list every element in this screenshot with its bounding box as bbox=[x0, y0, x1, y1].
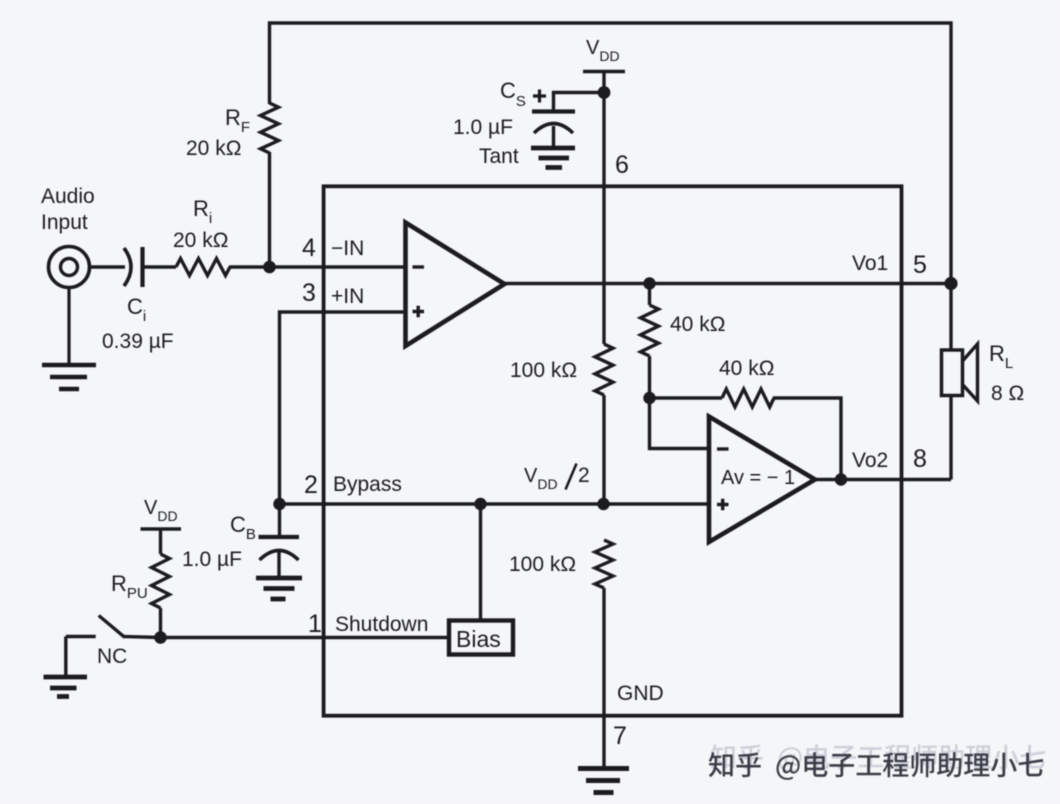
wire RF lower lead bbox=[268, 152, 271, 267]
svg-text:40 kΩ: 40 kΩ bbox=[719, 357, 774, 380]
speaker RL bbox=[942, 284, 978, 480]
ground (NC switch) bbox=[44, 677, 88, 697]
svg-text:100 kΩ: 100 kΩ bbox=[509, 553, 576, 576]
node Vo2 junction bbox=[835, 473, 847, 485]
svg-text:100 kΩ: 100 kΩ bbox=[510, 359, 577, 382]
power VDD symbol (RPU) bbox=[141, 529, 182, 554]
label Audio Input bbox=[41, 185, 95, 234]
svg-text:Tant: Tant bbox=[479, 145, 519, 168]
svg-text:5: 5 bbox=[913, 251, 927, 279]
op-amp A2 minus bbox=[717, 447, 729, 450]
wire top feedback run from RF to Vo1 node bbox=[270, 23, 952, 283]
wire Ri to -IN node bbox=[229, 265, 270, 268]
Bias box bbox=[449, 621, 513, 655]
wire RPU to shutdown node bbox=[159, 608, 162, 638]
wire GND rail down bbox=[602, 588, 605, 768]
svg-text:2: 2 bbox=[578, 464, 590, 487]
ground (GND pin 7) bbox=[578, 769, 629, 793]
wire VDD/2 rail bypass run bbox=[280, 502, 710, 505]
svg-text:8 Ω: 8 Ω bbox=[991, 382, 1024, 405]
resistor RPU bbox=[152, 554, 170, 608]
svg-text:Vo1: Vo1 bbox=[852, 252, 888, 275]
watermark zhihu dark layer bbox=[709, 752, 1043, 780]
wire 100k to VDD/2 node bbox=[602, 395, 605, 504]
node Vo1 / 40k tap bbox=[643, 277, 655, 289]
svg-text:1.0 µF: 1.0 µF bbox=[182, 548, 242, 571]
svg-text:0.39 µF: 0.39 µF bbox=[102, 330, 174, 353]
op-amp A1 plus bbox=[413, 306, 425, 318]
node Vo1 speaker junction bbox=[944, 277, 957, 290]
op-amp A1 minus bbox=[413, 265, 425, 268]
svg-text:2: 2 bbox=[304, 471, 318, 499]
node feedback junction bbox=[643, 392, 655, 404]
watermark zhihu light layer bbox=[711, 744, 1045, 772]
power VDD top symbol bbox=[583, 72, 625, 93]
capacitor CB bbox=[259, 504, 300, 578]
node shutdown junction bbox=[154, 631, 167, 644]
svg-text:7: 7 bbox=[613, 722, 627, 750]
svg-text:4: 4 bbox=[302, 234, 316, 262]
svg-text:Av = − 1: Av = − 1 bbox=[721, 467, 795, 489]
wire switch to ground bbox=[64, 637, 67, 677]
svg-text:20 kΩ: 20 kΩ bbox=[173, 229, 228, 252]
wire bias to VDD/2 bbox=[479, 504, 482, 620]
node bypass junction bbox=[273, 498, 285, 510]
svg-text:40 kΩ: 40 kΩ bbox=[670, 313, 725, 336]
resistor RF bbox=[261, 103, 279, 153]
svg-text:Bias: Bias bbox=[456, 626, 501, 652]
wire VDD rail down pin 6 bbox=[602, 93, 605, 345]
wire VDD to CS bbox=[554, 93, 605, 112]
RCA connector Audio Input bbox=[49, 247, 90, 288]
capacitor Ci bbox=[124, 247, 143, 287]
ground (audio input) bbox=[42, 288, 96, 390]
wire RCA to Ci bbox=[90, 265, 125, 268]
resistor 40k horizontal bbox=[650, 396, 723, 399]
switch NC bbox=[66, 635, 96, 638]
op-amp A2 plus bbox=[717, 499, 729, 511]
wire Vo2 output bbox=[815, 478, 951, 481]
node -IN junction bbox=[263, 261, 276, 274]
ground (CB) bbox=[256, 578, 302, 599]
svg-text:8: 8 bbox=[913, 445, 927, 473]
resistor Ri bbox=[176, 259, 230, 276]
svg-text:Input: Input bbox=[41, 211, 88, 234]
svg-text:Vo2: Vo2 bbox=[852, 449, 888, 472]
svg-text:1.0 µF: 1.0 µF bbox=[453, 116, 513, 139]
wire feedback node to A2 minus input bbox=[650, 398, 710, 449]
wire Vo1 output run bbox=[505, 282, 952, 285]
svg-text:1: 1 bbox=[308, 610, 322, 638]
wire -IN to op-amp bbox=[270, 265, 407, 268]
op-amp A2 bbox=[709, 417, 815, 543]
ground (CS) bbox=[531, 148, 575, 168]
capacitor CS bbox=[532, 112, 575, 149]
node VDD junction bbox=[598, 86, 611, 99]
svg-text:6: 6 bbox=[615, 151, 629, 179]
svg-text:Bypass: Bypass bbox=[333, 473, 402, 496]
svg-text:+IN: +IN bbox=[331, 285, 364, 308]
wire 40k feedback to Vo2 bbox=[773, 398, 841, 480]
node bias tap bbox=[474, 498, 486, 510]
wire 40k to feedback node bbox=[648, 356, 651, 398]
resistor 40k vertical bbox=[648, 284, 651, 306]
svg-text:−IN: −IN bbox=[331, 237, 364, 260]
node +IN external wire bbox=[280, 312, 407, 504]
op-amp A1 bbox=[406, 223, 505, 347]
wire Ci to Ri bbox=[144, 265, 176, 268]
node divider mid bbox=[597, 498, 609, 510]
svg-text:3: 3 bbox=[302, 279, 316, 307]
svg-text:GND: GND bbox=[617, 682, 664, 705]
svg-text:NC: NC bbox=[97, 645, 127, 668]
svg-text:Shutdown: Shutdown bbox=[335, 613, 428, 636]
wire shutdown run pin 1 bbox=[161, 636, 448, 639]
plus polarity mark CS bbox=[533, 90, 546, 103]
resistor 100k lower bbox=[595, 540, 613, 588]
svg-text:Audio: Audio bbox=[41, 185, 95, 208]
resistor 100k upper bbox=[595, 344, 613, 395]
IC box U1 bbox=[324, 186, 902, 715]
svg-text:20 kΩ: 20 kΩ bbox=[186, 137, 241, 160]
